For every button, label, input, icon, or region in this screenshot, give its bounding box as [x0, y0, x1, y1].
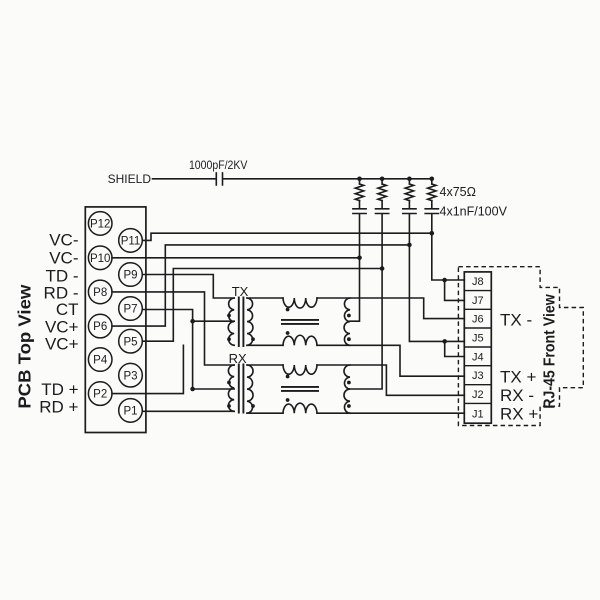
svg-text:P1: P1: [123, 406, 137, 418]
svg-text:P3: P3: [123, 370, 137, 382]
svg-text:TX: TX: [232, 284, 249, 299]
svg-text:J3: J3: [472, 370, 484, 382]
svg-text:4x1nF/100V: 4x1nF/100V: [440, 205, 508, 219]
svg-text:P9: P9: [123, 270, 137, 282]
svg-text:P8: P8: [93, 287, 107, 299]
svg-text:VC-: VC-: [49, 249, 78, 268]
svg-text:RD +: RD +: [39, 397, 78, 416]
svg-text:P7: P7: [123, 304, 137, 316]
svg-text:P2: P2: [93, 389, 107, 401]
svg-text:J5: J5: [472, 333, 484, 345]
svg-text:P10: P10: [90, 253, 110, 265]
svg-text:4x75Ω: 4x75Ω: [440, 185, 476, 199]
svg-text:RX -: RX -: [500, 386, 534, 405]
svg-text:P4: P4: [93, 355, 108, 367]
svg-text:J6: J6: [472, 314, 484, 326]
svg-text:J1: J1: [472, 408, 484, 420]
svg-text:J2: J2: [472, 389, 484, 401]
svg-text:SHIELD: SHIELD: [108, 172, 152, 186]
svg-text:RX +: RX +: [500, 405, 538, 424]
svg-text:J4: J4: [472, 351, 484, 363]
svg-text:RX: RX: [229, 351, 247, 366]
svg-text:PCB Top View: PCB Top View: [14, 284, 34, 408]
svg-text:J7: J7: [472, 295, 484, 307]
svg-text:1000pF/2KV: 1000pF/2KV: [189, 158, 248, 172]
svg-text:P11: P11: [121, 236, 141, 248]
svg-text:TX +: TX +: [500, 367, 536, 386]
svg-text:J8: J8: [472, 276, 484, 288]
svg-text:CT: CT: [56, 300, 79, 319]
svg-text:VC+: VC+: [45, 334, 79, 353]
svg-text:P5: P5: [123, 336, 137, 348]
svg-text:TD +: TD +: [41, 380, 78, 399]
svg-text:TX -: TX -: [500, 311, 532, 330]
svg-text:VC-: VC-: [49, 230, 78, 249]
svg-text:P6: P6: [93, 321, 107, 333]
svg-text:RJ-45 Front View: RJ-45 Front View: [541, 294, 558, 409]
svg-text:P12: P12: [90, 219, 110, 231]
